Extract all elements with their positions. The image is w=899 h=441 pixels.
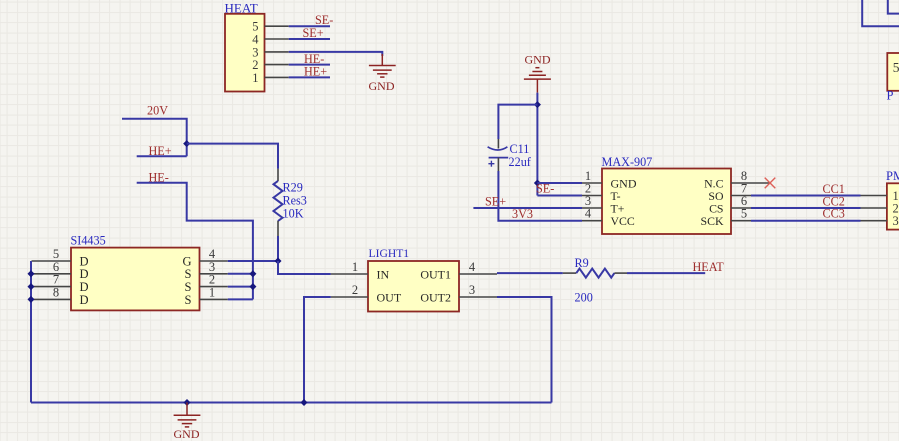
svg-text:22uf: 22uf (509, 155, 532, 169)
junction gnd rail / OUT (300, 399, 307, 406)
power port GND (top) (524, 52, 551, 92)
wire top-right staircase B (888, 0, 899, 14)
wire SI4435 left bus down to gnd rail (30, 261, 32, 403)
svg-text:8: 8 (53, 285, 59, 299)
wire HE- (HEAT pin2) (289, 64, 330, 66)
svg-text:SI4435: SI4435 (71, 233, 106, 247)
pin 4 of HEAT (252, 32, 288, 46)
pin 3 of MAX-907 (T+) (582, 194, 625, 215)
svg-text:2: 2 (352, 283, 358, 297)
wire C11 bottom to 3V3 row (498, 171, 582, 221)
component LIGHT1 body (368, 261, 459, 312)
wire S pin1 stub (228, 298, 253, 300)
junction pin6 (27, 270, 34, 277)
wire 20V stub (122, 119, 187, 157)
pin 8 of MAX-907 (N.C) (704, 169, 771, 190)
pin 1 of PM (861, 189, 899, 203)
connector HEAT body (225, 14, 265, 92)
svg-text:Res3: Res3 (283, 194, 307, 208)
svg-text:HE+: HE+ (304, 65, 327, 79)
connector P (upper right edge, partial) body (887, 53, 899, 91)
svg-text:HEAT: HEAT (225, 1, 258, 16)
junction S pin3 (249, 270, 256, 277)
pin 4 of LIGHT1 (OUT1) (420, 260, 497, 281)
junction pin8 (27, 296, 34, 303)
wire HE- to SI4435 S pins (137, 183, 253, 300)
svg-text:4: 4 (469, 260, 476, 274)
wire C11 branch (498, 105, 537, 139)
svg-text:C11: C11 (510, 142, 530, 156)
pin 1 of HEAT (252, 71, 288, 85)
wire HEAT pin3 to GND (289, 52, 383, 56)
svg-text:1: 1 (209, 285, 215, 299)
pin 3 of SI4435 (S) (185, 260, 228, 281)
wire CC1 (751, 195, 861, 197)
wire HE+ stub (137, 155, 187, 157)
pin 6 of SI4435 (D) (32, 260, 89, 281)
wire SE+ (HEAT pin4) (289, 38, 330, 40)
pin 2 of PM (861, 201, 899, 215)
svg-text:S: S (185, 293, 192, 307)
pin 4 of MAX-907 (VCC) (582, 207, 635, 228)
pin 4 of SI4435 (G) (182, 247, 227, 268)
junction GND/C11 (534, 101, 541, 108)
svg-text:3V3: 3V3 (512, 207, 533, 221)
svg-text:10K: 10K (283, 207, 304, 221)
pin 1 of LIGHT1 (IN) (331, 260, 390, 281)
svg-text:GND: GND (174, 427, 200, 441)
power port GND (near HEAT) (369, 54, 396, 93)
wire CC3 (751, 220, 861, 222)
svg-text:OUT1: OUT1 (420, 267, 451, 281)
svg-text:HEAT: HEAT (693, 260, 725, 274)
svg-text:3: 3 (469, 283, 475, 297)
pin 6 of MAX-907 (CS) (709, 194, 751, 215)
svg-text:SE-: SE- (536, 182, 554, 196)
component SI4435 body (71, 248, 200, 311)
pin 2 of MAX-907 (T-) (582, 182, 621, 203)
junction 20V/R29 branch (183, 140, 190, 147)
svg-text:200: 200 (575, 290, 593, 304)
wire SE- (HEAT pin5) (289, 25, 330, 27)
wire R9 to HEAT net (627, 272, 705, 274)
no-connect X on pin 8 (765, 178, 776, 189)
pin 2 of SI4435 (S) (185, 273, 228, 294)
junction GND/pin1 (534, 179, 541, 186)
svg-text:4: 4 (252, 32, 259, 46)
wire gnd rail (31, 402, 552, 404)
wire S pin3 stub (228, 273, 253, 275)
svg-text:1: 1 (352, 260, 358, 274)
svg-text:D: D (80, 293, 89, 307)
svg-text:VCC: VCC (611, 214, 635, 228)
wire GND junction to pin1 (537, 182, 582, 184)
junction G/R29 (274, 257, 281, 264)
wire HE+ (HEAT pin1) (289, 76, 330, 78)
pin 1 of SI4435 (S) (185, 285, 228, 306)
pin 7 of SI4435 (D) (32, 273, 89, 294)
resistor R9 (563, 269, 627, 278)
svg-text:PM: PM (886, 169, 899, 183)
svg-text:4: 4 (585, 207, 592, 221)
svg-text:R9: R9 (575, 256, 589, 270)
component MAX-907 body (602, 169, 731, 235)
svg-text:SE+: SE+ (303, 26, 324, 40)
pin 8 of SI4435 (D) (32, 285, 89, 306)
junction gnd rail / GND stub (183, 399, 190, 406)
pin 5 of HEAT (252, 20, 288, 34)
svg-text:GND: GND (369, 79, 395, 93)
wire SE- to pin2 (537, 195, 582, 197)
pin 2 of HEAT (252, 58, 288, 72)
svg-text:IN: IN (377, 267, 390, 281)
pin 3 of PM (861, 214, 899, 228)
pin 2 of LIGHT1 (OUT) (331, 283, 402, 304)
wire R29 junction to LIGHT1 IN (278, 261, 331, 274)
svg-text:SE+: SE+ (485, 194, 506, 208)
capacitor C11 (488, 139, 509, 171)
pin 1 of MAX-907 (GND) (582, 169, 637, 190)
junction S pin2 (249, 283, 256, 290)
junction pin7 (27, 283, 34, 290)
wire R29 bottom to G-net (277, 236, 279, 261)
wire OUT1 pin4 to R9 (497, 272, 563, 274)
svg-text:20V: 20V (147, 104, 168, 118)
svg-text:5: 5 (741, 207, 747, 221)
pin 7 of MAX-907 (SO) (708, 182, 751, 203)
component PM (right edge, partial) body (887, 183, 899, 229)
svg-text:LIGHT1: LIGHT1 (369, 247, 410, 260)
svg-text:P: P (887, 89, 894, 103)
power port GND (bottom) (174, 403, 201, 441)
svg-text:OUT2: OUT2 (420, 290, 451, 304)
svg-text:R29: R29 (283, 180, 303, 194)
wire CC2 (751, 207, 861, 209)
wire SE+ to pin3 (473, 207, 582, 209)
pin 5 of SI4435 (D) (32, 247, 89, 268)
svg-text:GND: GND (525, 52, 551, 66)
resistor R29 (274, 169, 283, 236)
wire top-right staircase A (862, 0, 899, 26)
svg-text:SCK: SCK (701, 214, 724, 228)
wire OUT2 pin3 down to gnd rail (497, 297, 552, 403)
wire S pin2 stub (228, 286, 253, 288)
pin 3 of LIGHT1 (OUT2) (420, 283, 497, 304)
pin 5 of MAX-907 (SCK) (701, 207, 751, 228)
svg-text:MAX-907: MAX-907 (602, 155, 653, 169)
svg-text:1: 1 (252, 71, 258, 85)
svg-text:3: 3 (893, 214, 899, 228)
svg-text:OUT: OUT (377, 290, 402, 304)
wire GND down to MAX-907 pin1 (536, 93, 538, 196)
wire junction to R29 top (187, 144, 278, 169)
svg-text:CC3: CC3 (823, 207, 845, 221)
wire OUT pin2 down to gnd rail (304, 297, 331, 403)
svg-text:5: 5 (893, 60, 899, 75)
wire G pin to R29 junction (228, 260, 278, 262)
pin 3 of HEAT (252, 45, 288, 59)
